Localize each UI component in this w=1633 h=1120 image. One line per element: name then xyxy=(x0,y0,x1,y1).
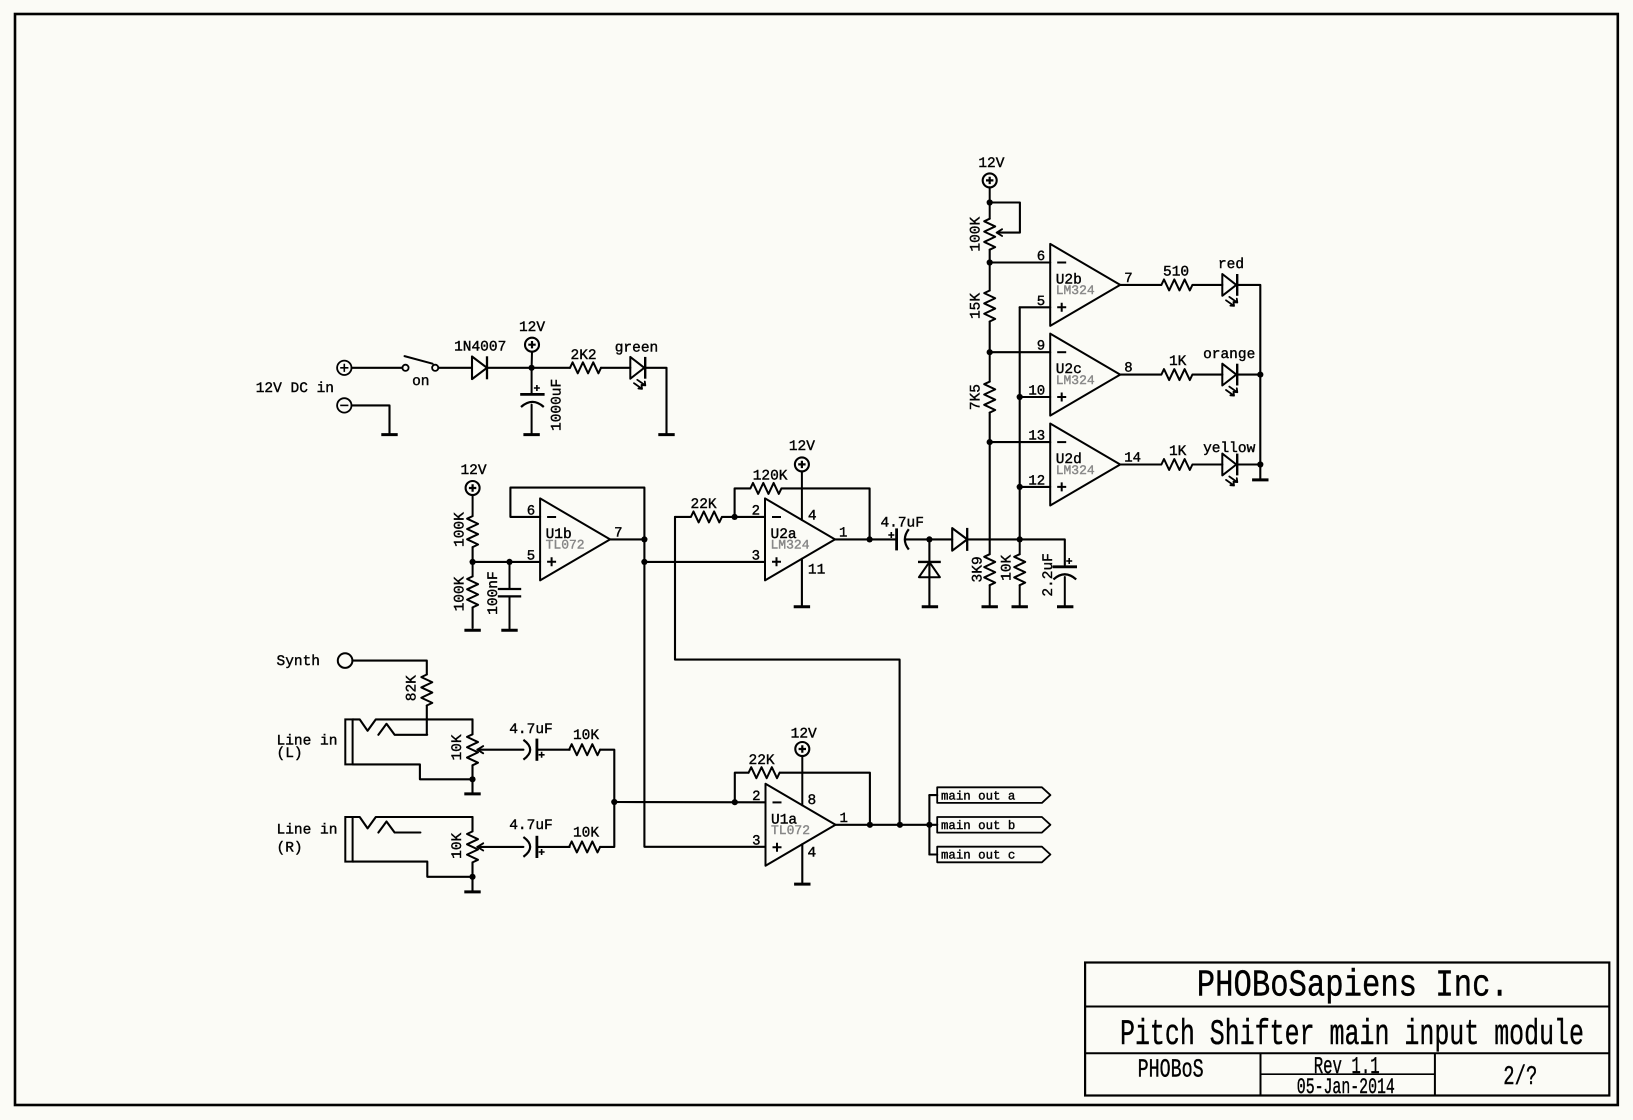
connector flag main out a xyxy=(937,787,1050,803)
svg-text:12V: 12V xyxy=(460,463,486,479)
label 1000uF xyxy=(550,379,566,431)
title sheet name xyxy=(1120,1014,1584,1055)
svg-text:6: 6 xyxy=(1037,249,1045,265)
wire trimpot to threshold 1 xyxy=(989,250,991,263)
power symbol 12V for U2a xyxy=(795,457,809,520)
label 2K2 xyxy=(571,348,597,364)
svg-text:LM324: LM324 xyxy=(1056,283,1095,298)
label 4.7uF R xyxy=(509,818,553,834)
label 10K envelope xyxy=(1000,554,1016,580)
wire 15K to threshold 2 xyxy=(989,322,991,353)
wire 100K lower to ground xyxy=(472,608,474,629)
LED D green xyxy=(630,357,645,389)
svg-text:orange: orange xyxy=(1203,347,1255,363)
connector minus terminal of 12V DC in xyxy=(337,398,351,412)
svg-text:12V: 12V xyxy=(791,727,817,743)
wire U2a output to 4.7uF xyxy=(870,538,896,540)
power symbol 12V for U1a xyxy=(795,742,809,805)
svg-text:Synth: Synth xyxy=(277,654,321,670)
wire 510 to red LED xyxy=(1193,284,1222,286)
ground for LED cathode rail xyxy=(1252,478,1268,481)
svg-text:PHOBoSapiens Inc.: PHOBoSapiens Inc. xyxy=(1197,965,1509,1008)
svg-text:12: 12 xyxy=(1028,473,1045,489)
jack J Line in L xyxy=(345,719,472,779)
title block box xyxy=(1085,963,1609,1096)
wire U2a output xyxy=(835,538,870,540)
resistor R 100K upper xyxy=(467,516,478,547)
wire jack R ground xyxy=(471,877,473,891)
capacitor C 4.7uF R xyxy=(523,836,544,858)
svg-text:TL072: TL072 xyxy=(771,823,810,838)
wire mix node to U1a pin 2 xyxy=(614,801,765,803)
junction U2c pin 10 xyxy=(1017,394,1023,400)
svg-text:15K: 15K xyxy=(969,293,985,319)
wire threshold 1 to U2b pin 6 xyxy=(990,261,1050,263)
resistor R 82K xyxy=(421,675,432,706)
resistor R 1K yellow xyxy=(1161,459,1192,470)
resistor R 100K lower xyxy=(467,562,478,607)
label 12V xyxy=(789,439,815,455)
wire L 10K to mix node xyxy=(600,750,614,802)
wire cathode rail middle xyxy=(1259,375,1261,465)
ground for U1a pin 4 xyxy=(794,883,810,886)
svg-text:9: 9 xyxy=(1037,339,1045,355)
wire U2a pin 11 to ground xyxy=(801,559,803,605)
wire jack L ground xyxy=(471,779,473,792)
wire envelope node to 2.2uF xyxy=(1020,539,1065,565)
label 1K orange xyxy=(1169,354,1187,370)
label orange xyxy=(1203,347,1255,363)
wire 1K to yellow LED xyxy=(1193,463,1222,465)
wire plus input chain xyxy=(1019,307,1021,539)
wire threshold 3 down to 3K9 xyxy=(989,442,991,554)
svg-text:1K: 1K xyxy=(1169,444,1187,460)
wire 22K left lead xyxy=(675,516,690,518)
capacitor C 100nF xyxy=(498,562,521,629)
resistor R 2K2 xyxy=(570,362,601,373)
wire synth to 82K xyxy=(352,661,426,675)
capacitor C 2.2uF xyxy=(1053,558,1077,605)
wire yellow LED cathode xyxy=(1237,463,1260,465)
wire L wiper to cap xyxy=(477,749,523,751)
junction U1a pin 2 node xyxy=(732,799,738,805)
label 10K L xyxy=(573,728,599,744)
label 4.7uF xyxy=(880,515,924,531)
junction threshold 1 xyxy=(987,259,993,265)
title author PHOBoS xyxy=(1138,1055,1204,1085)
svg-text:PHOBoS: PHOBoS xyxy=(1138,1055,1204,1085)
wire R cap to 10K xyxy=(537,846,570,848)
LED yellow xyxy=(1222,454,1237,486)
capacitor C 4.7uF L xyxy=(523,739,544,761)
svg-text:4.7uF: 4.7uF xyxy=(880,515,924,531)
op-amp U1b TL072 xyxy=(527,498,623,580)
junction jack R ground node xyxy=(469,874,475,880)
wire detector node to series diode xyxy=(929,538,952,540)
wire cathode rail to ground xyxy=(1259,465,1261,479)
ground for 1000uF xyxy=(523,433,539,436)
svg-text:4.7uF: 4.7uF xyxy=(509,818,553,834)
connector flag main out c xyxy=(937,847,1050,863)
svg-text:Line in: Line in xyxy=(277,823,338,839)
svg-text:22K: 22K xyxy=(691,497,717,513)
label Synth xyxy=(277,654,321,670)
svg-text:7K5: 7K5 xyxy=(969,384,985,410)
jack J Line in R xyxy=(345,817,472,877)
junction yellow LED cathode xyxy=(1257,461,1263,467)
ground for minus terminal xyxy=(381,433,397,436)
svg-text:12V: 12V xyxy=(519,320,545,336)
junction trimpot top xyxy=(987,199,993,205)
label 7K5 xyxy=(969,384,985,410)
resistor R 7K5 xyxy=(984,352,995,412)
ground for 100nF xyxy=(501,629,517,632)
svg-text:on: on xyxy=(412,374,429,390)
svg-text:1N4007: 1N4007 xyxy=(454,340,506,356)
ground for vertical diode xyxy=(922,605,938,608)
junction output flags node xyxy=(926,822,932,828)
diode D1 1N4007 xyxy=(472,356,487,379)
op-amp U2a LM324 xyxy=(752,498,848,580)
capacitor C 1000uF xyxy=(520,368,544,433)
svg-text:10K: 10K xyxy=(450,734,466,760)
svg-text:LM324: LM324 xyxy=(1056,463,1095,478)
wire U1b output xyxy=(610,538,644,540)
wire trimpot wiper loop xyxy=(990,203,1020,233)
LED red xyxy=(1222,274,1237,306)
wire U1a output right xyxy=(870,824,900,826)
label Line in R xyxy=(277,823,338,839)
op-amp U2b LM324 xyxy=(1037,244,1133,326)
wire envelope to U2b pin 5 xyxy=(1020,306,1050,308)
pin 4 label of U2a xyxy=(808,509,817,525)
svg-text:10K: 10K xyxy=(450,832,466,858)
svg-text:main out c: main out c xyxy=(941,849,1015,863)
label 10K pot L xyxy=(450,734,466,760)
svg-text:red: red xyxy=(1218,257,1244,273)
resistor R 120K feedback xyxy=(750,483,781,494)
label 2.2uF xyxy=(1041,553,1057,597)
wire orange LED cathode xyxy=(1237,374,1260,376)
pin 11 label of U2a xyxy=(808,563,825,579)
label 510 xyxy=(1163,264,1189,280)
op-amp U2d LM324 xyxy=(1028,424,1141,506)
wire U2b output to 510 xyxy=(1120,284,1161,286)
ground for 3K9 xyxy=(982,605,998,608)
junction 100nF node xyxy=(506,559,512,565)
label 22K U1a xyxy=(749,753,775,769)
label 12V xyxy=(791,727,817,743)
wire flag fanout vertical xyxy=(928,795,930,854)
junction threshold 2 xyxy=(987,349,993,355)
svg-text:10K: 10K xyxy=(1000,554,1016,580)
wire threshold 2 to U2c pin 9 xyxy=(990,351,1050,353)
resistor R 1K orange xyxy=(1161,369,1192,380)
pot R 10K R xyxy=(467,817,483,877)
junction mix node xyxy=(611,799,617,805)
svg-text:main out b: main out b xyxy=(941,819,1015,833)
label 10K pot R xyxy=(450,832,466,858)
svg-text:5: 5 xyxy=(527,548,535,564)
svg-text:2/?: 2/? xyxy=(1503,1063,1537,1093)
wire U2c output to 1K xyxy=(1120,374,1161,376)
wire 82K to jack L switch xyxy=(426,706,428,735)
junction U2a pin 2 node xyxy=(732,514,738,520)
svg-text:3K9: 3K9 xyxy=(970,556,986,582)
svg-text:5: 5 xyxy=(1037,294,1045,310)
junction jack L ground node xyxy=(469,776,475,782)
junction U1a output feedback xyxy=(867,822,873,828)
label 100K trimpot xyxy=(969,217,985,252)
connector flag main out b xyxy=(937,817,1050,833)
svg-text:yellow: yellow xyxy=(1203,441,1256,457)
wire U2d output to 1K xyxy=(1120,463,1161,465)
wire to U2d pin 12 xyxy=(1020,486,1050,488)
title date xyxy=(1297,1075,1395,1100)
wire bias rail down to U1a pin 3 xyxy=(644,562,765,847)
wire U1a pin 4 to ground xyxy=(801,844,803,882)
label 100K lower xyxy=(452,576,468,611)
junction U2d pin 12 xyxy=(1017,484,1023,490)
wire 22K to U1a output xyxy=(780,773,870,825)
power symbol 12V for comparator divider xyxy=(983,173,997,202)
svg-text:05-Jan-2014: 05-Jan-2014 xyxy=(1297,1075,1395,1100)
svg-text:13: 13 xyxy=(1028,429,1045,445)
wire diode to 12V node xyxy=(487,367,531,369)
trimpot R 100K xyxy=(984,203,995,250)
svg-text:8: 8 xyxy=(808,793,817,809)
label on xyxy=(412,374,429,390)
pot R 10K L xyxy=(467,719,483,779)
wire 4.7uF to detector node xyxy=(905,538,929,540)
wire stub flag b xyxy=(929,824,937,826)
svg-text:12V DC in: 12V DC in xyxy=(256,381,334,397)
svg-text:(L): (L) xyxy=(277,746,303,762)
svg-text:(R): (R) xyxy=(277,841,303,857)
wire green LED to ground xyxy=(645,368,666,433)
title company name xyxy=(1197,965,1509,1008)
connector Synth input xyxy=(338,653,353,668)
ground for U2a pin 11 xyxy=(794,605,810,608)
svg-text:3: 3 xyxy=(752,834,760,850)
svg-text:22K: 22K xyxy=(749,753,775,769)
wire L cap to 10K xyxy=(537,749,570,751)
junction U1b output xyxy=(641,536,647,542)
svg-text:120K: 120K xyxy=(753,468,788,484)
wire switch to diode D1 xyxy=(438,367,472,369)
svg-text:green: green xyxy=(615,340,659,356)
junction threshold 3 xyxy=(987,439,993,445)
resistor R 22K of U1a xyxy=(749,767,780,778)
title page number xyxy=(1503,1063,1537,1093)
label yellow xyxy=(1203,441,1256,457)
label 82K xyxy=(405,675,421,701)
connector plus terminal of 12V DC in xyxy=(337,361,351,375)
svg-text:10: 10 xyxy=(1028,384,1045,400)
wire output to flags xyxy=(900,824,929,826)
diode D series detector xyxy=(952,528,967,551)
svg-text:TL072: TL072 xyxy=(546,538,585,553)
junction envelope node xyxy=(1017,536,1023,542)
svg-text:1000uF: 1000uF xyxy=(550,379,566,431)
wire stub flag a xyxy=(929,794,937,796)
wire U1b feedback loop xyxy=(510,488,644,540)
svg-text:2.2uF: 2.2uF xyxy=(1041,553,1057,597)
wire U1b output down to bias rail xyxy=(643,539,645,562)
wire from U1a output node up and to 22K xyxy=(675,517,900,825)
resistor R 10K envelope xyxy=(1014,539,1025,605)
wire 7K5 to threshold 3 xyxy=(989,413,991,443)
junction detector node xyxy=(926,536,932,542)
wire 1K to orange LED xyxy=(1193,374,1222,376)
svg-text:4.7uF: 4.7uF xyxy=(509,722,553,738)
wire to U2c pin 10 xyxy=(1020,396,1050,398)
wire 2K2 to green LED xyxy=(601,367,630,369)
svg-text:2K2: 2K2 xyxy=(571,348,597,364)
svg-text:100K: 100K xyxy=(452,512,468,547)
junction bias node xyxy=(470,559,476,565)
svg-text:11: 11 xyxy=(808,563,825,579)
wire threshold 3 to U2d pin 13 xyxy=(990,441,1050,443)
svg-text:Pitch Shifter main input modul: Pitch Shifter main input module xyxy=(1120,1014,1584,1055)
label 12V xyxy=(519,320,545,336)
wire stub flag c xyxy=(929,853,937,855)
trimpot wiper arrow xyxy=(997,229,1003,236)
label (R) xyxy=(277,841,303,857)
svg-text:LM324: LM324 xyxy=(771,538,810,553)
label 3K9 xyxy=(970,556,986,582)
label net 12V DC in xyxy=(256,381,334,397)
label 22K xyxy=(691,497,717,513)
svg-text:10K: 10K xyxy=(573,826,599,842)
power symbol 12V for divider xyxy=(466,481,480,516)
resistor R 10K L xyxy=(569,744,600,755)
label 12V xyxy=(978,156,1004,172)
svg-text:510: 510 xyxy=(1163,264,1189,280)
wire plus terminal to switch xyxy=(352,367,403,369)
junction U2a output xyxy=(867,536,873,542)
svg-text:2: 2 xyxy=(752,789,760,805)
switch SW on xyxy=(402,356,438,371)
resistor R 3K9 xyxy=(984,554,995,605)
pin 8 label of U1a xyxy=(808,793,817,809)
wire bias node to pin 5 xyxy=(473,561,540,563)
label 4.7uF L xyxy=(509,722,553,738)
wire minus terminal to ground xyxy=(352,405,390,433)
LED orange xyxy=(1222,364,1237,396)
label red xyxy=(1218,257,1244,273)
svg-text:12V: 12V xyxy=(978,156,1004,172)
pin 4 label of U1a xyxy=(808,846,817,862)
ground for green LED xyxy=(658,433,674,436)
junction bias rail xyxy=(641,559,647,565)
resistor R 22K of U2a xyxy=(691,511,722,522)
svg-text:82K: 82K xyxy=(405,675,421,701)
ground for 100K lower xyxy=(464,629,480,632)
ground for 10K envelope xyxy=(1012,605,1028,608)
label 120K xyxy=(753,468,788,484)
wire U1a output xyxy=(836,824,870,826)
wire U2a feedback up xyxy=(735,488,750,517)
wire bias rail to U2a pin 3 xyxy=(644,561,765,563)
svg-text:10K: 10K xyxy=(573,728,599,744)
wire U1a feedback up xyxy=(735,773,749,803)
svg-text:100K: 100K xyxy=(452,576,468,611)
resistor R 510 xyxy=(1161,279,1192,290)
wire 100K upper to node xyxy=(472,547,474,562)
ground for jack L xyxy=(464,792,480,795)
svg-text:main out a: main out a xyxy=(941,789,1016,803)
junction U1a output to U2a path xyxy=(897,822,903,828)
resistor R 10K R xyxy=(569,841,600,852)
wire series diode to envelope node xyxy=(967,538,1019,540)
wire detector node down through diode to ground xyxy=(928,539,930,605)
label (L) xyxy=(277,746,303,762)
svg-text:2: 2 xyxy=(752,504,760,520)
svg-text:100K: 100K xyxy=(969,217,985,252)
label 100nF xyxy=(486,571,502,615)
wire 12V node to resistor 2K2 xyxy=(532,367,570,369)
wire red LED cathode down xyxy=(1237,285,1260,375)
op-amp U2c LM324 xyxy=(1028,334,1132,416)
svg-text:12V: 12V xyxy=(789,439,815,455)
wire R wiper to cap xyxy=(477,846,523,848)
capacitor C 4.7uF coupling xyxy=(888,528,909,550)
svg-text:3: 3 xyxy=(752,548,760,564)
ground for 2.2uF xyxy=(1057,605,1073,608)
svg-text:4: 4 xyxy=(808,509,817,525)
svg-text:LM324: LM324 xyxy=(1056,373,1095,388)
label 10K R xyxy=(573,826,599,842)
wire 120K to U2a output xyxy=(782,488,870,539)
junction orange LED cathode xyxy=(1257,372,1263,378)
label Line in L xyxy=(277,734,338,750)
label green xyxy=(615,340,659,356)
power symbol 12V rail xyxy=(525,338,539,368)
diode D rectifier vertical xyxy=(918,562,941,577)
junction 12V node xyxy=(529,365,535,371)
label 12V xyxy=(460,463,486,479)
wire R 10K to mix node xyxy=(600,802,614,847)
label 1K yellow xyxy=(1169,444,1187,460)
label 1N4007 xyxy=(454,340,506,356)
label 100K upper xyxy=(452,512,468,547)
op-amp U1a TL072 xyxy=(752,784,848,866)
svg-text:1K: 1K xyxy=(1169,354,1187,370)
svg-text:4: 4 xyxy=(808,846,817,862)
title revision xyxy=(1314,1054,1380,1081)
label 15K xyxy=(969,293,985,319)
ground for jack R xyxy=(464,890,480,893)
wire 22K to U2a pin 2 xyxy=(722,516,765,518)
resistor R 15K xyxy=(984,263,995,322)
svg-text:100nF: 100nF xyxy=(486,571,502,615)
